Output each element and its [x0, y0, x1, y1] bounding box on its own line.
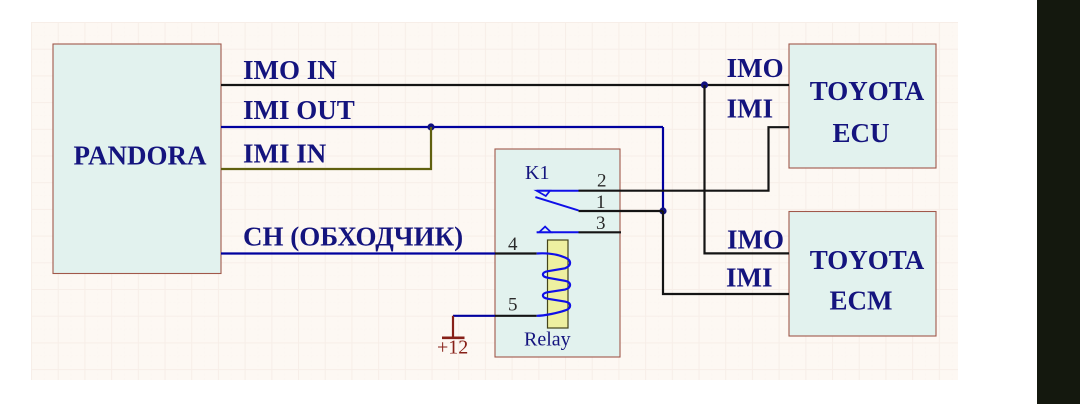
relay switch contact pin 2 (blue) [537, 191, 579, 196]
svg-text:Relay: Relay [524, 329, 571, 351]
relay pin 3 stub [579, 213, 622, 234]
svg-text:IMI OUT: IMI OUT [243, 95, 355, 125]
wire IMI OUT (blue, Pandora right) [221, 95, 663, 127]
schematic canvas background [31, 22, 958, 380]
svg-text:IMI: IMI [727, 93, 774, 123]
wire IMI IN (olive) [221, 127, 431, 169]
relay coil winding (blue) [537, 253, 570, 315]
svg-text:ECU: ECU [832, 118, 889, 148]
dark band right edge [1037, 0, 1080, 404]
node junction on IMO wire [701, 81, 708, 88]
wire IMO IN (Pandora to ECU) [221, 55, 789, 85]
svg-text:3: 3 [596, 213, 606, 234]
wire +12 to pin 5 (blue) [453, 315, 495, 317]
relay pin 2 wire to ECU IMI [579, 127, 790, 192]
svg-text:TOYOTA: TOYOTA [810, 76, 925, 106]
node junction IMI OUT / IMI IN [427, 123, 434, 130]
TOYOTA ECU box U2 [789, 44, 936, 168]
wire IMI OUT vertical drop to pin1 [662, 127, 664, 211]
relay coil body [548, 240, 569, 328]
TOYOTA ECM box U3 [789, 212, 936, 337]
svg-text:TOYOTA: TOYOTA [810, 245, 925, 275]
svg-text:IMO: IMO [727, 53, 784, 83]
relay switch lever (blue) [535, 197, 578, 210]
svg-text:2: 2 [597, 171, 607, 192]
svg-text:ECM: ECM [830, 286, 893, 316]
relay switch contact pin 3 (blue) [537, 227, 579, 233]
svg-text:1: 1 [596, 192, 606, 213]
svg-text:+12: +12 [437, 337, 468, 359]
svg-text:IMI: IMI [726, 262, 773, 292]
relay pin 1 wire to junction [579, 192, 664, 213]
wire CH (blue, Pandora to relay pin 4) [221, 222, 495, 254]
svg-text:IMO: IMO [727, 224, 784, 254]
svg-text:IMO IN: IMO IN [243, 55, 337, 85]
PANDORA box [53, 44, 221, 274]
svg-text:PANDORA: PANDORA [74, 141, 207, 171]
wire pin1 junction down to ECM IMI [663, 211, 789, 294]
svg-text:5: 5 [508, 294, 518, 315]
power +12 symbol [437, 316, 468, 359]
wire IMO branch down to ECM [705, 85, 790, 253]
relay pin 5 [495, 294, 537, 315]
svg-text:K1: K1 [525, 162, 549, 184]
svg-text:CH (ОБХОДЧИК): CH (ОБХОДЧИК) [243, 222, 463, 252]
relay K1 box [495, 149, 620, 357]
relay pin 4 [495, 234, 537, 255]
node junction pin1 / IMI [659, 207, 666, 214]
svg-text:IMI IN: IMI IN [243, 139, 327, 169]
svg-text:4: 4 [508, 234, 518, 255]
